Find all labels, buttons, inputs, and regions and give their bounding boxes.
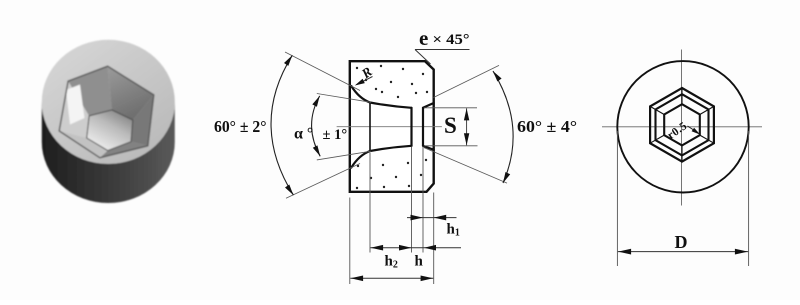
section view group [337,61,442,192]
svg-text:D: D [675,232,688,252]
hole lower profile curve [351,146,411,168]
h1 dimension line [407,217,457,219]
hex hole wall top-left [68,66,112,116]
overall height dimension line [350,277,433,279]
arc arrow top [284,55,292,66]
upper leg line [285,52,360,91]
S arrow up [464,108,469,120]
hole upper profile curve [351,86,411,108]
exit lower leg [424,148,507,184]
hexagon corner connectors [650,88,714,162]
h2 and h dimension line [370,247,461,249]
hex hole wall left [59,81,89,138]
60 deg +-2 entry angle dimension [285,52,360,198]
bearing end line [422,108,424,146]
D dimension line [618,251,748,253]
angle arc [271,55,293,195]
alpha arc [312,96,321,156]
svg-text:± 1°: ± 1° [323,127,348,143]
bottom extension lines [350,147,434,285]
left wall white highlight [66,85,85,125]
exit cone upper line [423,103,434,108]
alpha lower leg [317,151,371,160]
exit arc arrow top [493,71,502,81]
inner hexagon [664,104,700,145]
svg-text:S: S [444,113,457,138]
S arrow down [464,133,469,145]
svg-text:× 45°: × 45° [433,32,470,48]
alpha arc arrow top [312,96,319,107]
hex hole wall top-right [108,66,154,120]
D extension line right [748,131,750,266]
photo: carbide die nib isometric photo [42,40,175,203]
end view group [602,50,762,267]
alpha arc arrow bottom [313,145,320,156]
lower leg line [286,164,360,199]
die top face [42,40,175,164]
alpha upper leg [317,94,371,103]
svg-text:60° ± 4°: 60° ± 4° [517,117,577,136]
hex hole wall right [131,95,154,146]
hex hole rim outline [59,66,154,158]
callout underline [415,49,470,51]
svg-text:60° ± 2°: 60° ± 2° [214,117,267,136]
exit upper leg [434,65,500,97]
svg-text:e: e [419,26,428,50]
60 deg +-4 exit angle dimension [424,65,507,183]
svg-text:α °: α ° [294,126,313,143]
hex hole wall bottom-left [59,131,107,158]
D extension line left [616,131,618,266]
throat size S dimension [424,108,478,146]
r0.5 leader [688,126,697,132]
hex edge vertical at taper [369,103,371,152]
arc arrow bottom [285,185,293,196]
svg-text:h: h [415,254,424,270]
bearing start line [410,108,412,146]
exit angle arc [493,71,513,183]
outer diameter circle [617,61,748,192]
vertical centerline [681,50,683,206]
middle hexagon [656,94,709,155]
callout leader [415,50,431,65]
chamfer callout e x 45 [415,26,470,64]
entry radius R callout [355,64,375,86]
stipple dots lower section [356,159,427,189]
exit cone lower line [423,146,434,150]
hex hole floor [87,110,133,151]
horizontal centerline [602,126,762,128]
hex hole wall bottom-right [100,142,148,158]
alpha taper angle dimension [317,94,371,160]
axis centerline [337,126,442,128]
exit arc arrow bottom [503,172,510,183]
die cylindrical side (dark) [42,102,175,203]
stipple dots upper section [356,65,428,98]
die body outline [350,61,434,192]
outer hexagon [650,88,714,162]
